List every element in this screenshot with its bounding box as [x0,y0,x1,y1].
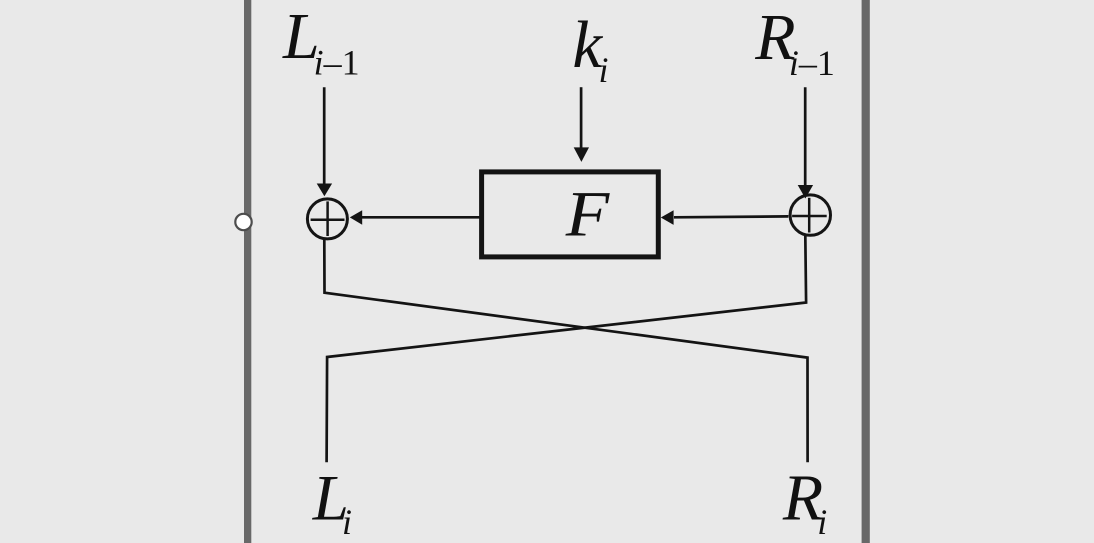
svg-text:F: F [565,178,611,250]
svg-text:i–1: i–1 [789,43,835,83]
svg-text:i: i [817,502,827,542]
svg-text:i–1: i–1 [314,42,360,82]
svg-text:i: i [599,50,609,90]
svg-text:i: i [342,502,352,542]
